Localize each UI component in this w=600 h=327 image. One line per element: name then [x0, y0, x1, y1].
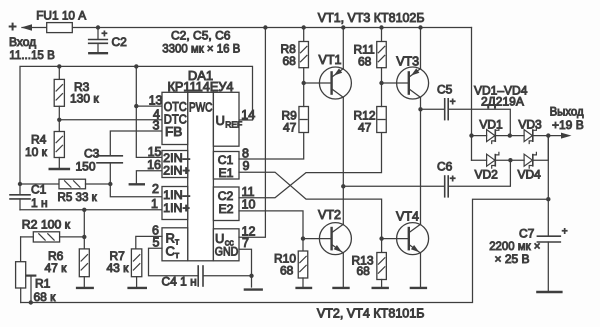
svg-text:2200 мк ×: 2200 мк ×: [489, 239, 540, 253]
svg-text:2: 2: [152, 182, 159, 196]
wire + node VD1-VD3: [495, 135, 524, 137]
wire: pin 3 FB: [110, 131, 162, 155]
svg-text:REF: REF: [225, 120, 242, 130]
resistor R2 100k: [33, 232, 59, 242]
ground (R10): [297, 287, 311, 289]
svg-text:15: 15: [148, 145, 162, 159]
svg-text:+: +: [450, 174, 456, 185]
wire: pin 10 E2 to VT2 base: [239, 211, 303, 239]
svg-text:E1: E1: [219, 166, 234, 180]
wire: VD4 up to output: [533, 136, 549, 161]
svg-text:VD1: VD1: [479, 118, 503, 132]
resistor R10 68: [302, 239, 304, 251]
wire: VT1 collector down: [342, 97, 344, 186]
svg-text:68: 68: [357, 264, 371, 278]
svg-text:C6: C6: [437, 160, 453, 174]
svg-text:+: +: [9, 18, 17, 34]
svg-text:1: 1: [151, 197, 158, 211]
svg-text:47: 47: [358, 121, 372, 135]
capacitor C2: [97, 28, 99, 39]
ground (R13): [373, 287, 388, 289]
diode VD3: [524, 130, 532, 142]
wire: VT1 base: [304, 82, 332, 84]
svg-text:3300 мк × 16 В: 3300 мк × 16 В: [162, 42, 240, 56]
svg-text:11...15 В: 11...15 В: [9, 48, 55, 62]
svg-text:47 к: 47 к: [45, 261, 68, 275]
svg-text:+19 В: +19 В: [552, 118, 584, 132]
DA1 box UCC/GND: [213, 229, 239, 261]
node: R6/R2 column top: [82, 208, 86, 212]
wire: VT4 base: [382, 238, 409, 240]
svg-text:E2: E2: [219, 202, 234, 216]
ground (C2): [89, 52, 107, 54]
svg-text:10 к: 10 к: [25, 145, 48, 159]
wire: divider column: [83, 210, 85, 249]
svg-text:VD4: VD4: [518, 167, 542, 181]
svg-text:13: 13: [149, 94, 163, 108]
diode VD4: [524, 154, 532, 166]
node: VT3 base: [379, 81, 383, 85]
capacitor C7 2200uF: [537, 235, 560, 237]
wire: VT1 emitter to rail: [342, 28, 344, 69]
svg-text:R5 33 к: R5 33 к: [58, 190, 98, 204]
wire: +V rail: [98, 27, 472, 29]
ground (VT2): [334, 287, 349, 289]
svg-text:VT4: VT4: [396, 210, 419, 224]
svg-text:+: +: [450, 97, 456, 108]
svg-text:10: 10: [242, 198, 256, 212]
resistor R6 47k: [79, 249, 89, 277]
transistor VT1 (PNP): [319, 67, 351, 99]
svg-text:C1: C1: [218, 153, 234, 167]
svg-text:VT1: VT1: [319, 53, 342, 67]
wire: bottom feedback rail: [21, 199, 549, 302]
wire: pin 7 GND: [239, 249, 252, 287]
svg-text:× 25 В: × 25 В: [495, 252, 530, 266]
svg-text:R1: R1: [35, 277, 51, 291]
input arrow: [22, 27, 47, 29]
wire: pin 4 DTC: [59, 119, 162, 121]
DA1 box OTC/DTC/FB: [162, 92, 188, 144]
svg-text:2IN+: 2IN+: [163, 164, 190, 178]
wire: pin 9 via X to VT4 base: [239, 172, 382, 238]
svg-text:+: +: [102, 29, 108, 40]
capacitor C1 1n: [19, 184, 21, 194]
ground (pin 16): [130, 183, 144, 185]
svg-text:C3: C3: [84, 147, 100, 161]
svg-text:VD3: VD3: [518, 118, 542, 132]
node: VT4 base: [379, 236, 383, 240]
wire: rail down to diode anodes: [471, 28, 473, 161]
wire: pin 6 to R7: [136, 236, 162, 249]
wire + node VD2-VD4: [495, 159, 524, 161]
DA1 box RT/CT: [162, 228, 188, 261]
resistor R4 10k: [58, 120, 60, 132]
ground (R6): [77, 287, 93, 289]
svg-text:9: 9: [243, 159, 250, 173]
wire: pin 8 C1 to R9: [239, 133, 304, 160]
wire: VT3 base: [382, 82, 409, 84]
resistor R5 33k: [20, 183, 59, 185]
resistor R13 68: [381, 239, 383, 253]
wire: pin 16 to ground: [136, 171, 162, 184]
resistor R11 68: [379, 25, 383, 29]
svg-text:C2: C2: [112, 35, 128, 49]
output arrow: [548, 135, 563, 137]
wire: pin 11 via X to R12: [239, 133, 382, 198]
svg-text:т: т: [175, 237, 179, 247]
wire: +V to pin 12 Ucc: [263, 25, 267, 29]
capacitor C5: [421, 108, 445, 110]
svg-text:VT1, VT3 КТ8102Б: VT1, VT3 КТ8102Б: [318, 11, 425, 25]
wire: VT2 base: [303, 238, 332, 240]
diode VD1: [472, 135, 487, 137]
svg-text:150: 150: [76, 160, 96, 174]
svg-text:VT3: VT3: [396, 55, 419, 69]
wire: output down to C7: [547, 136, 549, 236]
wire: Uref rail (pin 14): [20, 66, 253, 184]
op-amp U1 DA1 KR1114EU4 main column: [188, 92, 214, 260]
wire: VT4 emitter to ground: [420, 253, 422, 287]
wire: pin 1 1IN+: [20, 209, 162, 211]
svg-text:7: 7: [242, 236, 249, 250]
svg-text:U: U: [216, 113, 225, 128]
svg-text:C1: C1: [31, 182, 47, 196]
svg-text:VT2: VT2: [318, 208, 341, 222]
svg-text:т: т: [175, 250, 179, 260]
capacitor C6: [343, 185, 444, 187]
ground (R7): [129, 287, 146, 289]
node: C6 tap: [341, 184, 345, 188]
svg-text:C4 1 н: C4 1 н: [162, 275, 197, 289]
svg-text:VD2: VD2: [475, 167, 499, 181]
svg-text:1IN+: 1IN+: [163, 201, 190, 215]
resistor R1 68k: [20, 237, 22, 262]
node: R2 right: [82, 235, 86, 239]
DA1 box 1IN: [162, 187, 188, 220]
resistor R3 130k: [58, 66, 60, 79]
svg-text:14: 14: [241, 108, 255, 122]
node: pin13 branch: [134, 64, 138, 68]
DA1 box C1/E1: [213, 152, 239, 180]
wire: Uref to pin 13 and pin 15: [136, 66, 162, 157]
wire: VT2 collector up: [342, 186, 344, 224]
node: C2 junction: [96, 25, 100, 29]
diode VD2: [472, 159, 487, 161]
svg-text:2Д219А: 2Д219А: [481, 94, 524, 108]
ground (C7): [537, 291, 561, 293]
svg-text:FB: FB: [165, 125, 182, 139]
DA1 box 2IN: [162, 151, 188, 178]
svg-text:Выход: Выход: [550, 105, 584, 119]
svg-text:Вход: Вход: [9, 35, 36, 49]
transistor VT2 (NPN): [319, 223, 351, 255]
svg-text:68: 68: [280, 264, 294, 278]
wire: VT2 emitter to ground: [342, 253, 344, 287]
DA1 box UREF: [213, 92, 239, 146]
svg-text:68: 68: [283, 54, 297, 68]
svg-text:C: C: [166, 244, 175, 259]
svg-text:C2: C2: [218, 189, 234, 203]
chassis tap near R1: [27, 275, 36, 277]
svg-text:C5: C5: [437, 83, 453, 97]
svg-text:1IN–: 1IN–: [163, 188, 190, 202]
node: VT1 base: [302, 81, 306, 85]
node: C5 tap: [418, 107, 422, 111]
svg-text:+: +: [562, 226, 568, 237]
wire: VT3 collector down to VT4: [420, 97, 422, 224]
ground (R4): [50, 168, 69, 170]
node: R3 top: [57, 64, 61, 68]
node: VT2 base: [301, 236, 305, 240]
wire: VT3 emitter to rail: [420, 28, 422, 69]
node: R3/R4 divider (pin 4): [57, 118, 61, 122]
svg-text:68: 68: [358, 55, 372, 69]
wire: Uref to C1/R5 node: [18, 182, 22, 186]
node: C3/R5 (pin 2): [108, 182, 112, 186]
node: output: [546, 133, 550, 137]
resistor R9 47: [299, 107, 309, 133]
svg-text:VT2, VT4 КТ8101Б: VT2, VT4 КТ8101Б: [317, 307, 425, 321]
svg-text:130 к: 130 к: [70, 92, 99, 106]
svg-text:6: 6: [152, 224, 159, 238]
svg-text:FU1 10 А: FU1 10 А: [36, 9, 86, 23]
svg-text:PWC: PWC: [189, 101, 212, 115]
svg-text:43 к: 43 к: [107, 261, 130, 275]
resistor R7 43k: [131, 249, 141, 277]
svg-text:GND: GND: [215, 244, 239, 258]
capacitor C4 1n: [149, 248, 198, 275]
svg-text:47: 47: [283, 121, 297, 135]
transistor VT3 (PNP): [397, 67, 429, 99]
svg-text:16: 16: [147, 158, 161, 172]
DA1 box C2/E2: [213, 187, 239, 221]
ground (pin 7): [245, 288, 262, 290]
capacitor C3 150: [97, 155, 122, 157]
transistor VT4 (NPN): [397, 223, 429, 255]
resistor R12 47: [377, 107, 387, 133]
wire: pin 2 1IN-: [110, 184, 162, 197]
ground (VT4): [411, 287, 426, 289]
resistor R8 68: [302, 25, 306, 29]
svg-text:3: 3: [153, 119, 160, 133]
fuse FU1: [47, 27, 98, 29]
svg-text:R2 100 к: R2 100 к: [22, 218, 71, 232]
svg-text:1 н: 1 н: [31, 196, 48, 210]
svg-text:C2, C5, C6: C2, C5, C6: [171, 29, 231, 43]
